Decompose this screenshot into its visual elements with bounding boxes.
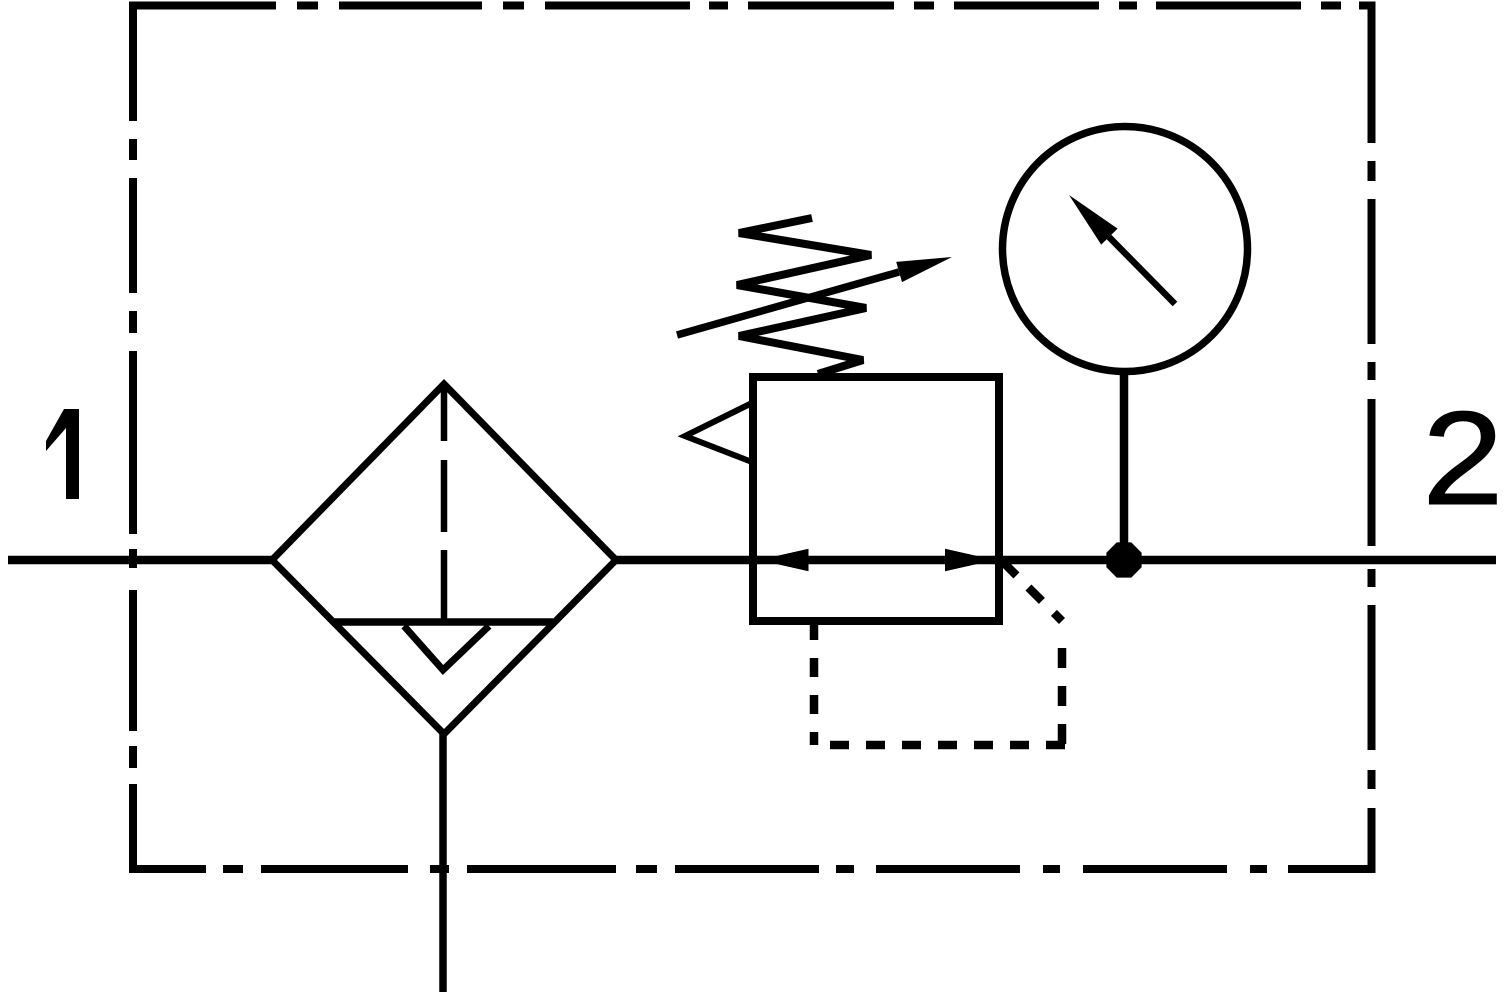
- regulator R1 adjustment arrowhead: [896, 257, 952, 282]
- regulator R1 pilot dashed diagonal from outlet: [1003, 562, 1062, 621]
- filter F1 diamond body: [272, 384, 616, 734]
- filter F1 separator V notch: [404, 626, 489, 670]
- regulator R1 left flow arrowhead: [759, 549, 809, 571]
- filter F1 condensate water line: [332, 618, 553, 626]
- enclosure border right edge (dash-dot): [1368, 6, 1376, 870]
- main flow line filter outlet to port 2: [613, 556, 1496, 565]
- regulator R1 right flow arrowhead: [945, 549, 995, 571]
- pressure gauge G1 needle shaft: [1109, 237, 1175, 304]
- filter F1 element dashed centerline segment 2: [441, 460, 448, 532]
- regulator R1 pilot dashed left vertical to diaphragm: [810, 621, 819, 745]
- enclosure border bottom edge (dash-dot): [129, 865, 1376, 873]
- filter F1 condensate drain line: [439, 731, 447, 992]
- junction node dot at gauge tap: [1106, 542, 1141, 577]
- pressure gauge G1 dial circle: [1003, 127, 1248, 372]
- enclosure border left edge (dash-dot): [129, 2, 137, 874]
- regulator R1 relief vent triangle: [685, 403, 752, 462]
- pressure gauge G1 needle arrowhead: [1069, 195, 1118, 245]
- regulator R1 setting spring zigzag: [737, 218, 871, 374]
- regulator R1 pilot dashed right vertical: [1058, 648, 1067, 745]
- enclosure border top edge (dash-dot): [130, 2, 1376, 10]
- filter F1 element dashed centerline segment 1: [441, 383, 448, 441]
- regulator R1 adjustment arrow shaft: [677, 272, 899, 335]
- main flow line port 1 to filter inlet: [8, 556, 276, 565]
- port 1 label: [46, 409, 79, 499]
- pressure gauge G1 stem to main line: [1120, 374, 1129, 560]
- filter F1 element dashed centerline segment 3: [441, 550, 448, 625]
- regulator R1 body box: [753, 377, 999, 621]
- regulator R1 pilot dashed bottom horizontal: [814, 741, 1065, 750]
- port 2 label: [1422, 383, 1503, 532]
- svg-text:2: 2: [1422, 383, 1503, 532]
